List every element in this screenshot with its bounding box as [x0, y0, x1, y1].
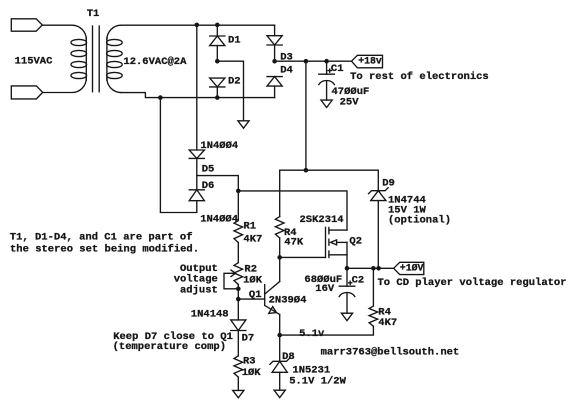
transistor Q1 emitter [265, 305, 280, 314]
junction +10V/C2 [345, 266, 350, 271]
diode D3 [267, 36, 282, 45]
mosfet Q2 gate bar [325, 227, 327, 257]
wire base node to D7 [237, 299, 239, 320]
junction +18V/D9 feed [304, 59, 309, 64]
svg-text:To CD player voltage regulator: To CD player voltage regulator [378, 277, 567, 289]
svg-text:marr3763@bellsouth.net: marr3763@bellsouth.net [321, 346, 460, 358]
wire secondary top lead [107, 25, 121, 39]
svg-text:2SK2314: 2SK2314 [300, 214, 344, 226]
wire D7 to R3 [237, 331, 239, 356]
diode D2 [210, 78, 225, 87]
junction node N (raw DC for regulator) [236, 189, 241, 194]
svg-text:T1: T1 [87, 8, 100, 20]
ground (C1) [321, 100, 332, 107]
C2 polarity + [349, 281, 352, 284]
svg-text:+18v: +18v [358, 56, 382, 67]
svg-text:adjust: adjust [180, 284, 218, 296]
wire gate lead [280, 256, 326, 258]
wire node N to Q2 drain [238, 191, 347, 230]
svg-text:(optional): (optional) [388, 215, 451, 227]
wire secondary bottom lead [107, 78, 121, 92]
svg-text:115VAC: 115VAC [15, 56, 54, 68]
wire primary top lead [42, 25, 86, 39]
svg-text:1N4148: 1N4148 [191, 309, 229, 321]
mosfet Q2 drain lead [329, 229, 347, 231]
svg-text:R3: R3 [243, 355, 256, 367]
svg-text:the stereo set being modified.: the stereo set being modified. [10, 243, 199, 255]
wire J1 to ground [217, 61, 243, 121]
svg-text:D2: D2 [228, 76, 241, 88]
capacitor C2 [339, 285, 355, 287]
zener diode D8 [272, 361, 287, 372]
wire AC1 top rail [121, 24, 274, 26]
svg-text:1ØK: 1ØK [243, 274, 263, 286]
wire Q2 source to +10 rail [346, 242, 348, 268]
junction AC2/D2 [215, 95, 220, 100]
svg-text:4K7: 4K7 [378, 317, 397, 329]
transistor Q1 base bar [264, 285, 266, 306]
wire R4b top lead [372, 268, 374, 306]
transformer T1 core [92, 26, 94, 92]
wire D9 top lead [377, 170, 379, 191]
wire +18V net [275, 60, 352, 62]
svg-text:1N4ØØ4: 1N4ØØ4 [200, 214, 238, 226]
svg-text:Q2: Q2 [349, 236, 362, 248]
resistor R3 [234, 356, 243, 377]
junction +18V/C1 [324, 59, 329, 64]
wire C1 to ground [326, 81, 328, 100]
ground (D8) [274, 390, 285, 397]
input terminal J1a (115VAC hot) [11, 19, 42, 31]
svg-text:D4: D4 [280, 64, 293, 76]
transformer T1 primary winding [85, 38, 87, 81]
ground (R3) [233, 390, 244, 397]
ground (C2) [341, 313, 352, 320]
svg-text:C1: C1 [331, 63, 344, 75]
svg-text:2N39Ø4: 2N39Ø4 [269, 295, 307, 307]
junction node J2 (+18V bridge output) [272, 59, 277, 64]
junction R2 bottom / wiper [236, 287, 241, 292]
mosfet Q2 body arrow [331, 240, 337, 245]
transistor Q1 collector [265, 282, 280, 295]
wire +10V rail [347, 267, 394, 269]
svg-text:D7: D7 [242, 333, 255, 345]
svg-text:5.1v: 5.1v [299, 328, 325, 340]
resistor R1 [234, 221, 243, 243]
wire D4 anode lead [274, 86, 276, 98]
zener diode D9 [371, 191, 386, 201]
wire D6 anode to AC2 [160, 98, 196, 213]
wire R3 to ground [237, 377, 239, 390]
wire D2 cathode lead [216, 87, 218, 97]
svg-text:25V: 25V [340, 97, 360, 109]
wire D6 link [196, 176, 198, 190]
junction D9 feed [304, 168, 309, 173]
wire Q1 emitter to D8 node [279, 315, 281, 336]
junction +10V/D9 [376, 266, 381, 271]
wire D5 cathode lead [196, 158, 198, 175]
wire D8 lead [279, 335, 281, 361]
diode D7 [231, 320, 246, 331]
junction AC1/D5 branch [195, 23, 200, 28]
wire primary bottom lead [43, 78, 87, 92]
mosfet Q2 channel segments [328, 228, 330, 234]
diode D6 [189, 190, 204, 201]
wire R4 to gate node [279, 238, 281, 257]
svg-text:16V: 16V [315, 283, 335, 295]
svg-text:1ØK: 1ØK [242, 367, 262, 379]
wire D9 bottom lead [377, 201, 379, 269]
wire R2 to base node [237, 284, 239, 299]
wire R4b bottom to 5.1v node [280, 326, 374, 335]
svg-text:1N4ØØ4: 1N4ØØ4 [200, 140, 238, 152]
power tag +18v [352, 55, 383, 68]
svg-text:12.6VAC@2A: 12.6VAC@2A [123, 56, 187, 68]
resistor R4 47K [275, 217, 284, 238]
svg-text:Q1: Q1 [249, 289, 262, 301]
wire +18 feed corner to R4 [280, 61, 379, 216]
capacitor C1 [319, 73, 335, 75]
wire D1 anode lead [216, 46, 218, 62]
C1 polarity + [328, 69, 331, 72]
svg-text:D5: D5 [202, 163, 215, 175]
svg-text:+1ØV: +1ØV [400, 262, 424, 273]
junction base node [236, 297, 241, 302]
transformer T1 secondary winding [106, 38, 108, 81]
capacitor C2 top lead [346, 268, 348, 286]
potentiometer R2 [234, 263, 243, 285]
diode D5 [189, 150, 204, 158]
wire D8 to ground [279, 372, 281, 390]
diode D1 [210, 36, 225, 46]
svg-text:C2: C2 [352, 274, 365, 286]
wire AC1 to D5 [196, 25, 198, 150]
wire C2 to ground [346, 293, 348, 314]
svg-text:4K7: 4K7 [243, 234, 262, 246]
junction +10V/R4b [371, 266, 376, 271]
diode D4 [267, 77, 282, 87]
junction AC1/D1 [215, 23, 220, 28]
svg-text:To rest of electronics: To rest of electronics [350, 71, 489, 83]
wire base lead [238, 298, 264, 300]
resistor R4 4K7 [369, 306, 378, 326]
input terminal J1b (115VAC neutral) [11, 86, 42, 99]
wire AC1 to D3 [274, 25, 276, 36]
power tag +10V [394, 262, 424, 274]
svg-text:(temperature comp): (temperature comp) [113, 341, 226, 353]
svg-text:R1: R1 [243, 220, 256, 232]
wire node N to R1 [237, 191, 239, 221]
mosfet Q2 source lead [329, 254, 347, 256]
wire node N branch to R1 [197, 176, 239, 191]
junction AC2/D6 branch [158, 95, 163, 100]
svg-text:D8: D8 [282, 351, 295, 363]
ground (bridge negative) [238, 121, 249, 128]
junction node J1 (bridge negative) [215, 59, 220, 64]
wire gate node to Q1 collector [279, 257, 281, 281]
junction 5.1v node [277, 333, 282, 338]
wire AC2 bottom rail [121, 93, 274, 98]
wire D1 cathode lead [216, 25, 218, 35]
capacitor C1 top lead [326, 61, 328, 74]
junction gate node [277, 255, 282, 260]
svg-text:T1, D1-D4, and C1 are part of: T1, D1-D4, and C1 are part of [10, 232, 193, 244]
svg-text:5.1V 1/2W: 5.1V 1/2W [289, 375, 346, 387]
svg-text:D1: D1 [228, 34, 241, 46]
svg-text:47K: 47K [284, 236, 304, 248]
wire R1 to R2 [237, 243, 239, 263]
R2 wiper arrow [231, 270, 236, 276]
wire D3 cathode lead [274, 45, 276, 61]
